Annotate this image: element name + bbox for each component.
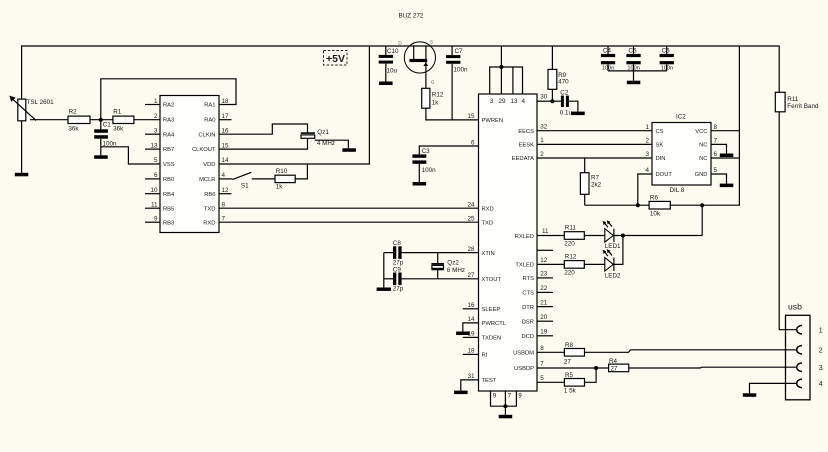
svg-text:29: 29 — [498, 98, 506, 105]
ground below C5 — [627, 81, 641, 85]
svg-text:RXD: RXD — [482, 206, 494, 212]
capacitor C5 100n — [626, 46, 640, 72]
svg-text:C4: C4 — [603, 48, 612, 55]
IC1 left pin labels — [163, 103, 175, 227]
svg-text:220: 220 — [564, 241, 575, 248]
svg-text:RB7: RB7 — [163, 147, 174, 153]
svg-text:DCD: DCD — [521, 334, 534, 340]
svg-text:R1: R1 — [113, 109, 122, 116]
resistor R1 36k — [113, 109, 134, 133]
USB contact pin 4 — [797, 379, 802, 388]
svg-text:19: 19 — [540, 329, 548, 336]
wire CLKIN pin16 to Qz1 — [219, 124, 308, 134]
IC1 PIC microcontroller box — [160, 96, 219, 233]
svg-text:RB0: RB0 — [163, 177, 174, 183]
svg-text:10u: 10u — [387, 68, 398, 75]
resistor R9 470 — [548, 46, 569, 101]
IC2 right pin numbers — [714, 124, 718, 174]
svg-text:CS: CS — [656, 129, 664, 135]
svg-text:4 MHz: 4 MHz — [317, 140, 335, 147]
resistor R5 1 5k — [564, 372, 585, 394]
svg-text:5: 5 — [154, 157, 158, 164]
ground Qz1 — [342, 148, 356, 152]
wire pin28 XTIN row — [402, 252, 479, 254]
svg-text:13: 13 — [510, 98, 518, 105]
svg-text:1: 1 — [540, 137, 544, 144]
svg-text:28: 28 — [467, 246, 475, 253]
svg-text:27p: 27p — [393, 259, 404, 266]
wire cap bus — [608, 70, 667, 72]
svg-text:14: 14 — [467, 316, 475, 323]
svg-text:XTOUT: XTOUT — [482, 277, 502, 283]
svg-text:7: 7 — [714, 138, 718, 145]
IC1 right pin numbers — [222, 98, 230, 223]
svg-text:2: 2 — [154, 113, 158, 120]
IC1 left pin numbers — [150, 98, 158, 223]
svg-text:RB6: RB6 — [204, 192, 215, 198]
svg-text:6 MHz: 6 MHz — [447, 267, 465, 274]
svg-text:XTIN: XTIN — [482, 251, 495, 257]
svg-text:17: 17 — [222, 113, 230, 120]
wire pin31 TEST to ground — [461, 380, 479, 391]
wire R6 to +5V riser — [670, 46, 739, 205]
svg-text:Ferrit Band: Ferrit Band — [787, 103, 819, 110]
wire EESK pin1 to IC2 pin2 — [537, 143, 652, 145]
LED LED1 — [603, 220, 621, 250]
svg-text:BUZ 272: BUZ 272 — [399, 13, 424, 20]
+5V supply label — [324, 51, 348, 66]
svg-text:27: 27 — [564, 358, 572, 365]
wire RXD pin7 to IC3 TXD — [219, 221, 479, 223]
ground USB pin4 — [743, 393, 757, 397]
svg-text:R8: R8 — [565, 342, 574, 349]
svg-text:SK: SK — [656, 143, 664, 149]
wire RA0 pin17 stub — [219, 119, 232, 121]
svg-text:TSL 2601: TSL 2601 — [27, 99, 55, 106]
svg-text:D: D — [398, 41, 402, 47]
wire R2 to junction — [90, 119, 113, 121]
svg-text:C3: C3 — [422, 148, 431, 155]
sensor TSL 2601 — [9, 96, 54, 121]
svg-text:5: 5 — [714, 167, 718, 174]
svg-text:2: 2 — [540, 151, 544, 158]
svg-text:14: 14 — [222, 157, 230, 164]
resistor R7 2k2 pull-up on EEDATA — [580, 158, 601, 205]
svg-text:25: 25 — [467, 216, 475, 223]
wire pin20 DSR stub — [537, 320, 553, 322]
wire S1 to R10 — [252, 178, 275, 180]
svg-text:1: 1 — [154, 98, 158, 105]
IC3 top pin numbers 3 29 13 4 — [490, 98, 526, 105]
svg-text:C2: C2 — [560, 89, 569, 96]
wire R12 to LED2 — [584, 263, 605, 265]
svg-text:7: 7 — [540, 361, 544, 368]
svg-text:4: 4 — [222, 172, 226, 179]
svg-text:RA2: RA2 — [163, 103, 174, 109]
wire ferrite to USB pin1 — [779, 112, 797, 330]
wire pin7 USBDP to R4 — [537, 367, 609, 369]
svg-text:R7: R7 — [591, 175, 600, 182]
wire VDD pin14 to +5V rail — [219, 46, 369, 164]
svg-text:1: 1 — [645, 124, 649, 131]
ground PWRCTL — [456, 332, 470, 336]
wire R4 to USB pin3 — [629, 366, 797, 369]
svg-text:DTR: DTR — [522, 305, 534, 311]
svg-text:Qz2: Qz2 — [447, 260, 459, 267]
ground below TSL 2601 — [15, 173, 28, 177]
svg-text:3: 3 — [490, 98, 494, 105]
USB contact pin 1 — [797, 325, 802, 334]
ground crystal — [377, 288, 391, 291]
svg-text:18: 18 — [222, 98, 230, 105]
wire pin19 TXDEN stub — [463, 336, 479, 338]
node pin30 junction — [550, 99, 554, 103]
svg-text:VCC: VCC — [695, 129, 707, 135]
wire C8 C9 common to ground — [383, 253, 385, 288]
svg-text:RI: RI — [482, 353, 488, 359]
ground IC2 pin5 — [720, 184, 734, 188]
svg-text:EESK: EESK — [519, 143, 535, 149]
wire pin18 RI stub — [463, 353, 479, 355]
resistor R8 27 — [564, 342, 585, 365]
svg-text:3: 3 — [645, 151, 649, 158]
svg-text:IC2: IC2 — [676, 114, 686, 121]
svg-text:1k: 1k — [276, 184, 284, 191]
svg-text:12: 12 — [222, 187, 230, 194]
svg-text:3: 3 — [154, 127, 158, 134]
ground TEST — [454, 391, 468, 395]
wire Qz1 center pin to ground — [315, 140, 349, 148]
svg-text:10: 10 — [150, 187, 158, 194]
capacitor C6 100n — [660, 46, 674, 72]
capacitor C10 — [379, 46, 399, 82]
resistor R11 Ferrit Band — [775, 92, 819, 112]
wire pin nc stub between 11 and 12 — [537, 249, 553, 251]
svg-text:R12: R12 — [432, 92, 444, 99]
wire pin30 stub — [537, 100, 552, 102]
svg-text:7: 7 — [508, 392, 512, 399]
svg-text:24: 24 — [467, 202, 475, 209]
svg-text:R10: R10 — [276, 168, 288, 175]
wire pin23 RTS stub — [537, 277, 553, 279]
svg-text:USBDM: USBDM — [513, 351, 534, 357]
node LED branch junction — [700, 203, 704, 207]
resistor R2 36k — [68, 109, 90, 133]
svg-text:100n: 100n — [422, 167, 437, 174]
svg-text:EECS: EECS — [518, 129, 534, 135]
svg-text:CLKIN: CLKIN — [198, 132, 215, 138]
svg-text:PWRCTL: PWRCTL — [482, 321, 507, 327]
svg-text:15: 15 — [467, 113, 475, 120]
IC3 bottom pin numbers — [493, 392, 523, 399]
svg-text:36k: 36k — [68, 126, 79, 133]
svg-text:R12: R12 — [565, 254, 577, 261]
svg-text:R2: R2 — [69, 109, 78, 116]
svg-text:23: 23 — [540, 271, 548, 278]
resistor R6 10k — [649, 195, 670, 218]
wire CLKOUT pin15 to Qz1 — [219, 138, 308, 149]
wire TXD pin8 to IC3 RXD — [219, 207, 479, 209]
ground IC3 bottom — [499, 415, 513, 419]
wire TSL to R2 — [30, 119, 68, 121]
wire pin27 XTOUT row — [402, 278, 479, 280]
svg-text:TXD: TXD — [204, 206, 216, 212]
svg-text:R4: R4 — [609, 358, 618, 365]
ground below C1 — [94, 155, 108, 159]
resonator Qz1 4MHz — [301, 129, 335, 147]
USB contact pin 3 — [797, 363, 802, 372]
wire IC2 pin8 VCC to riser — [711, 130, 739, 132]
svg-text:6: 6 — [714, 151, 718, 158]
svg-text:DOUT: DOUT — [656, 172, 673, 178]
IC2 left pin labels — [656, 129, 673, 178]
svg-text:RA4: RA4 — [163, 132, 175, 138]
node LED1 junction — [621, 234, 625, 238]
svg-text:PWREN: PWREN — [482, 118, 504, 124]
svg-text:22: 22 — [540, 285, 548, 292]
wire R10 to VDD row — [295, 164, 307, 179]
svg-text:7: 7 — [222, 215, 226, 222]
wire LED row riser to R6 row — [701, 205, 703, 235]
wire LED2 cathode to LED1 row — [614, 236, 623, 265]
wire pin14 PWRCTL to ground — [463, 323, 479, 332]
svg-text:6: 6 — [471, 139, 475, 146]
svg-text:8: 8 — [222, 201, 226, 208]
svg-text:5: 5 — [540, 375, 544, 382]
svg-text:9: 9 — [154, 215, 158, 222]
svg-text:9: 9 — [493, 392, 497, 399]
IC3 FT232 USB interface box — [479, 94, 538, 391]
wire VSS to C1 ground — [101, 147, 160, 164]
capacitor C3 100n — [412, 148, 436, 182]
svg-text:8: 8 — [540, 345, 544, 352]
svg-text:2: 2 — [819, 348, 823, 355]
node bottom ground junction — [503, 404, 507, 408]
IC3 left pin numbers — [467, 113, 475, 380]
IC3 left pin labels — [482, 118, 507, 384]
wire EEDATA pin2 to IC2 pin3 — [537, 157, 652, 159]
svg-text:0.1u: 0.1u — [560, 110, 573, 117]
svg-text:18: 18 — [467, 348, 475, 355]
wire EECS pin32 to IC2 pin1 — [537, 130, 652, 132]
IC2 right pin labels — [695, 129, 708, 178]
capacitor C9 27p — [384, 266, 404, 292]
wire IC2 pin7 NC to ground — [711, 144, 727, 153]
wire IC3 bottom ground pins 9 17 29 — [491, 391, 517, 415]
svg-text:2: 2 — [645, 138, 649, 145]
USB contact pin 2 — [797, 346, 802, 355]
svg-text:4: 4 — [819, 381, 823, 388]
svg-text:TXLED: TXLED — [515, 263, 534, 269]
svg-text:36k: 36k — [113, 126, 124, 133]
svg-text:C5: C5 — [628, 48, 637, 55]
svg-text:13: 13 — [150, 142, 158, 149]
svg-text:NC: NC — [699, 143, 707, 149]
svg-text:16: 16 — [222, 127, 230, 134]
ground IC2 pin7 — [720, 154, 734, 158]
wire pin12 TXLED row — [537, 263, 564, 265]
svg-text:RTS: RTS — [523, 276, 535, 282]
wire IC2 pin4 DOUT down to R6 row — [638, 174, 652, 205]
IC2 left pin numbers — [645, 124, 649, 174]
capacitor C4 100n — [601, 46, 615, 72]
svg-text:C8: C8 — [393, 240, 402, 247]
wire USB pin4 to ground — [750, 383, 797, 393]
svg-text:DIL 8: DIL 8 — [670, 187, 685, 194]
svg-text:15: 15 — [222, 142, 230, 149]
wire IC3 top supply pins 3 29 13 4 — [490, 46, 523, 94]
svg-text:R5: R5 — [565, 372, 574, 379]
IC3 right pin numbers — [540, 94, 549, 383]
svg-text:GND: GND — [695, 172, 708, 178]
svg-text:MCLR: MCLR — [199, 177, 215, 183]
svg-text:DIN: DIN — [656, 156, 666, 162]
svg-text:R11: R11 — [565, 224, 577, 231]
svg-text:VSS: VSS — [163, 162, 175, 168]
USB connector box — [786, 315, 811, 400]
svg-text:TXD: TXD — [482, 220, 494, 226]
IC1 left pin stubs — [145, 105, 160, 223]
IC2 EEPROM 93C46 box — [652, 123, 711, 186]
svg-text:RB3: RB3 — [163, 220, 174, 226]
svg-text:11: 11 — [151, 201, 158, 208]
svg-text:16: 16 — [467, 302, 475, 309]
svg-text:220: 220 — [564, 270, 575, 277]
svg-text:C9: C9 — [393, 266, 402, 273]
svg-text:30: 30 — [540, 94, 548, 101]
capacitor C8 27p — [384, 240, 404, 266]
svg-text:VDD: VDD — [203, 162, 215, 168]
svg-text:RA1: RA1 — [204, 103, 215, 109]
svg-text:EEDATA: EEDATA — [512, 156, 534, 162]
resistor R12 220 — [564, 254, 584, 277]
svg-text:1: 1 — [819, 327, 823, 334]
wire pin22 CTS stub — [537, 291, 553, 293]
svg-text:3: 3 — [819, 365, 823, 372]
wire pin8 USBDM to R8 — [537, 351, 564, 353]
svg-text:S1: S1 — [241, 183, 249, 190]
svg-text:C7: C7 — [455, 48, 464, 55]
svg-text:NC: NC — [699, 156, 707, 162]
IC1 right pin labels — [192, 103, 216, 227]
svg-text:SLEEP: SLEEP — [482, 307, 501, 313]
ground below C10 — [379, 82, 393, 86]
svg-text:CTS: CTS — [522, 291, 534, 297]
svg-text:S: S — [430, 40, 433, 46]
svg-text:R6: R6 — [650, 195, 659, 202]
wire pin5 to R5 — [537, 381, 564, 383]
wire R12 to PWREN pin 15 — [426, 108, 479, 120]
wire pin6 to C3 — [419, 146, 478, 154]
node DOUT junction — [636, 203, 640, 207]
svg-text:LED2: LED2 — [605, 273, 621, 280]
svg-text:470: 470 — [558, 79, 569, 86]
resistor R10 1k — [275, 168, 295, 191]
svg-text:RA0: RA0 — [204, 118, 215, 124]
IC3 right pin labels — [512, 129, 535, 372]
wire pin21 DTR stub — [537, 306, 553, 308]
wire pin19 DCD stub — [537, 335, 553, 337]
svg-text:12: 12 — [540, 257, 548, 264]
wire pin16 SLEEP stub — [463, 308, 479, 310]
ground below C2 — [571, 112, 585, 116]
svg-text:6: 6 — [154, 172, 158, 179]
svg-text:1k: 1k — [432, 100, 440, 107]
svg-text:+5V: +5V — [326, 53, 345, 65]
svg-text:100n: 100n — [454, 67, 469, 74]
svg-text:RA3: RA3 — [163, 118, 174, 124]
svg-text:C6: C6 — [662, 48, 671, 55]
wire IC2 pin6 NC to riser — [711, 157, 739, 159]
wire LED1 cathode row — [614, 235, 702, 237]
capacitor C2 0.1u — [552, 89, 578, 116]
svg-text:21: 21 — [540, 299, 548, 306]
wire R7 to R6 row — [585, 204, 649, 206]
svg-text:31: 31 — [467, 373, 475, 380]
wire IC2 pin5 GND to ground — [711, 174, 727, 184]
wire TSL bottom to ground — [21, 121, 23, 173]
ground below C3 — [413, 182, 427, 186]
wire cap bus drop — [633, 71, 635, 81]
svg-text:usb: usb — [788, 302, 802, 312]
switch S1 — [219, 172, 251, 189]
svg-text:TEST: TEST — [482, 378, 497, 384]
junction dot supply bar — [499, 65, 503, 69]
resistor R12 1k (gate) — [422, 88, 444, 108]
wire pin11 RXLED row — [537, 235, 564, 237]
resistor R11 220 — [564, 224, 584, 247]
svg-text:Qz1: Qz1 — [317, 129, 329, 136]
svg-text:11: 11 — [542, 228, 549, 235]
wire R1 to RA3 pin 2 — [134, 119, 160, 121]
svg-text:2k2: 2k2 — [591, 182, 602, 189]
node USBDP junction — [594, 366, 598, 370]
svg-text:RXLED: RXLED — [515, 234, 534, 240]
node C1 junction — [99, 118, 103, 122]
svg-text:RB4: RB4 — [163, 192, 175, 198]
resistor R4 27 — [609, 358, 629, 373]
svg-text:27: 27 — [467, 272, 475, 279]
svg-text:32: 32 — [540, 124, 548, 131]
svg-text:4: 4 — [522, 98, 526, 105]
wire R11 to LED1 — [584, 235, 605, 237]
svg-text:CLKOUT: CLKOUT — [192, 147, 216, 153]
svg-text:RB5: RB5 — [163, 206, 174, 212]
svg-text:10k: 10k — [650, 211, 661, 218]
wire junction loop to RA1 pin 18 — [101, 79, 236, 120]
svg-text:9: 9 — [518, 392, 522, 399]
svg-text:1 5k: 1 5k — [564, 387, 577, 394]
svg-text:DSR: DSR — [522, 320, 534, 326]
LED LED2 — [603, 249, 621, 280]
transistor T1 BUZ272 P-MOSFET — [398, 40, 435, 89]
svg-text:20: 20 — [540, 314, 548, 321]
wire R5 up to USBDP row — [585, 368, 597, 382]
svg-text:4: 4 — [645, 167, 649, 174]
svg-text:RXD: RXD — [203, 220, 215, 226]
wire R8 to USB pin2 — [585, 350, 797, 353]
wire +5V top rail — [22, 46, 780, 99]
svg-text:LED1: LED1 — [605, 243, 621, 250]
svg-text:27p: 27p — [393, 286, 404, 293]
crystal Qz2 6MHz — [431, 253, 465, 279]
wire RB6 pin12 stub — [219, 193, 232, 195]
capacitor C7 100n — [446, 46, 468, 120]
svg-text:C1: C1 — [103, 121, 112, 128]
svg-text:TXDEN: TXDEN — [482, 336, 502, 342]
capacitor C1 100n — [94, 120, 117, 156]
svg-text:C10: C10 — [387, 48, 399, 55]
